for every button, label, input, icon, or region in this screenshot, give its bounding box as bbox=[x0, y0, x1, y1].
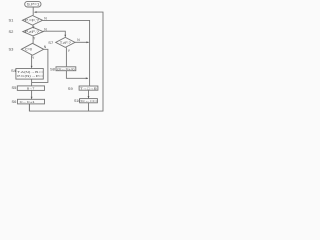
svg-text:P.=F.?: P.=F.? bbox=[25, 19, 40, 23]
arrowhead S8 out into right rail bbox=[86, 77, 88, 79]
svg-text:(C←C+1): (C←C+1) bbox=[57, 67, 74, 71]
svg-text:N: N bbox=[44, 45, 47, 49]
process S10 bbox=[80, 99, 98, 103]
terminator start SP=1 bbox=[25, 1, 41, 7]
wire S6 to bottom line bbox=[28, 104, 30, 111]
wire S7 Y to process S8 bbox=[65, 47, 67, 66]
wire S1 Y to S2 bbox=[32, 25, 34, 27]
wire stadium to diamond S1 bbox=[32, 7, 34, 15]
arrowhead into S7 top bbox=[64, 35, 66, 37]
svg-text:Y: Y bbox=[32, 25, 35, 29]
wire S2 N branch to diamond S7 bbox=[43, 31, 65, 36]
svg-text:C←□□: C←□□ bbox=[81, 99, 97, 103]
svg-text:S.P=1: S.P=1 bbox=[27, 3, 40, 7]
wire S3 Y to process S4 bbox=[31, 55, 33, 67]
svg-text:S6: S6 bbox=[12, 99, 18, 104]
wire S4 to S5 bbox=[31, 79, 33, 85]
wire S1 N branch bbox=[43, 20, 90, 86]
svg-text:C=0: C=0 bbox=[25, 48, 32, 52]
arrowhead into S4 top bbox=[31, 66, 33, 68]
wire S2 Y to S3 bbox=[32, 36, 34, 43]
svg-text:C←C+1: C←C+1 bbox=[20, 100, 35, 104]
wire S7 N branch bbox=[75, 41, 89, 43]
svg-text:T→□→B: T→□→B bbox=[80, 87, 97, 91]
svg-text:S3: S3 bbox=[9, 47, 15, 52]
svg-text:S2: S2 bbox=[9, 29, 15, 34]
wire S8 out to right merge bbox=[66, 71, 88, 79]
wire S10 to bottom line bbox=[88, 103, 90, 111]
arrowhead feedback into main bbox=[34, 11, 37, 13]
process S8 bbox=[56, 67, 76, 71]
svg-text:N: N bbox=[77, 38, 80, 42]
process S6 bbox=[18, 99, 45, 104]
decision S7 bbox=[56, 37, 75, 47]
arrowhead S7N into right rail bbox=[86, 41, 88, 43]
svg-text:P.≠F.?: P.≠F.? bbox=[25, 30, 40, 34]
decision S2 bbox=[23, 27, 43, 36]
svg-text:S8: S8 bbox=[50, 67, 56, 72]
decision S1 bbox=[22, 16, 42, 26]
svg-text:Y: Y bbox=[32, 56, 35, 60]
svg-text:S10: S10 bbox=[74, 99, 80, 103]
svg-text:P.C(N)→P.□: P.C(N)→P.□ bbox=[17, 74, 42, 78]
svg-text:S9: S9 bbox=[68, 86, 74, 91]
arrowhead into S10 top bbox=[88, 96, 90, 98]
svg-text:B→T: B→T bbox=[27, 87, 34, 91]
decision S3 bbox=[21, 43, 43, 55]
svg-text:S5: S5 bbox=[12, 85, 18, 90]
svg-text:Y: Y bbox=[68, 49, 71, 53]
svg-text:Y: Y bbox=[33, 36, 36, 40]
svg-text:S4: S4 bbox=[11, 68, 17, 73]
wire S5 to S6 bbox=[31, 90, 33, 99]
process S5 bbox=[17, 86, 44, 91]
svg-text:T.≠F.?: T.≠F.? bbox=[60, 41, 71, 45]
svg-text:N: N bbox=[44, 16, 47, 20]
svg-text:S7: S7 bbox=[48, 40, 54, 45]
process S9 bbox=[79, 86, 98, 90]
wire feedback return top bbox=[29, 12, 103, 111]
wire S3 N branch right-down-left merge bbox=[32, 49, 48, 82]
process S4 bbox=[16, 69, 43, 80]
arrowhead into S6 top bbox=[31, 97, 33, 99]
svg-text:S1: S1 bbox=[9, 18, 15, 23]
wire S9 to S10 bbox=[88, 90, 90, 98]
